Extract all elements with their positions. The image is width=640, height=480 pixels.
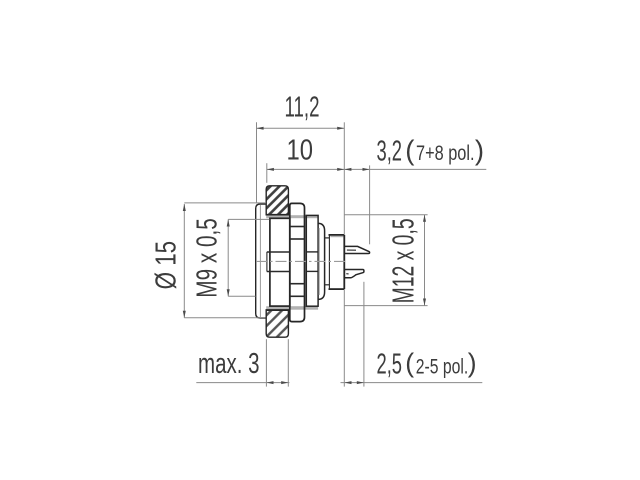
- ext v right common upper: [343, 122, 345, 234]
- panel top (hatched): [266, 186, 289, 215]
- svg-text:2,5: 2,5: [377, 349, 403, 381]
- ext v max3 right: [287, 339, 289, 386]
- gray seal band top: [266, 215, 318, 218]
- sleeve internal lines: [306, 252, 318, 272]
- ext h M9 top: [228, 218, 269, 220]
- dim line 10 + 3,2 leader: [267, 168, 487, 170]
- flange face line: [259, 205, 261, 317]
- svg-text:3,2: 3,2: [377, 135, 403, 167]
- ledge top: [325, 237, 330, 239]
- dim line M9: [227, 219, 229, 296]
- arrowheads: [183, 127, 426, 384]
- dimension + extension lines: [184, 122, 486, 386]
- ext h dia15 bottom: [184, 317, 265, 319]
- locknut body outline: [270, 218, 290, 306]
- ext h M12 top: [344, 214, 427, 216]
- dim line dia15: [183, 204, 185, 318]
- svg-text:10: 10: [287, 135, 314, 167]
- svg-text:Ø 15: Ø 15: [151, 241, 183, 290]
- solder pin top: [344, 246, 369, 253]
- connector body white fills: [256, 203, 345, 321]
- svg-text:7+8 pol.: 7+8 pol.: [416, 141, 475, 165]
- dim line max3: [196, 382, 289, 384]
- svg-text:2-5 pol.: 2-5 pol.: [416, 354, 469, 378]
- ext h M9 bottom: [228, 295, 255, 297]
- centerline: [256, 260, 346, 262]
- solder pin bottom: [344, 270, 364, 278]
- dim line M12: [424, 215, 426, 306]
- ext v 11,2 left: [256, 122, 258, 203]
- ext v right common lower: [343, 290, 345, 387]
- svg-text:): ): [475, 134, 484, 165]
- housing middle column outline: [290, 203, 305, 321]
- right sleeve outline: [306, 215, 318, 306]
- svg-text:M9 x 0,5: M9 x 0,5: [191, 218, 223, 298]
- dim line 2,5 leader: [341, 382, 483, 384]
- thread groove lines: [267, 252, 290, 272]
- gray seal band bottom: [266, 306, 318, 310]
- ext v max3 left: [265, 339, 267, 386]
- svg-text:(: (: [405, 134, 414, 165]
- flange plate outline: [256, 204, 267, 318]
- ext v pin tip 2,5: [363, 282, 365, 387]
- dim line 11,2: [257, 127, 345, 129]
- svg-text:M12 x 0,5: M12 x 0,5: [386, 218, 420, 303]
- svg-text:11,2: 11,2: [285, 91, 320, 123]
- panel bottom (hatched): [266, 310, 289, 337]
- ext v pin tip 3,2: [369, 165, 371, 244]
- ledge bottom: [325, 284, 330, 286]
- svg-text:max. 3: max. 3: [198, 348, 260, 380]
- housing internal lines: [290, 227, 305, 297]
- ext h M12 bottom: [344, 305, 427, 307]
- rear body dome outline: [318, 223, 324, 299]
- svg-text:): ): [468, 348, 477, 378]
- svg-text:(: (: [405, 348, 414, 378]
- contact carrier block edges: [330, 236, 343, 238]
- ext v 10 left: [266, 163, 268, 183]
- ext h dia15 top: [184, 202, 266, 204]
